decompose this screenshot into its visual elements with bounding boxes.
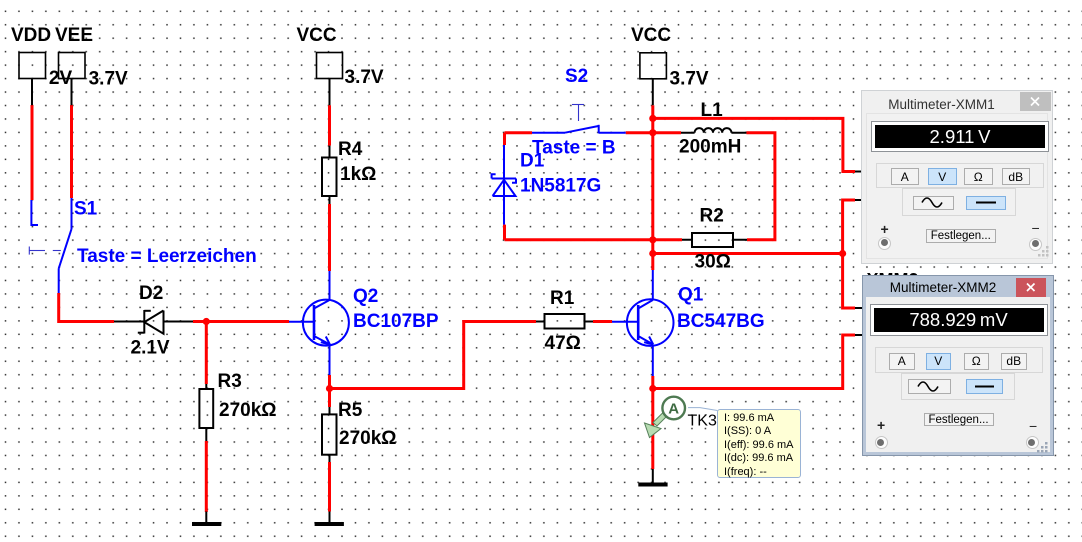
tooltip TK3 readings: [717, 409, 801, 478]
svg-text:R5: R5: [338, 400, 363, 421]
svg-text:Taste = B: Taste = B: [532, 138, 616, 159]
wire R4 leads: [329, 146, 331, 204]
svg-text:A: A: [668, 401, 679, 418]
wire VCC1 down: [328, 105, 331, 145]
svg-text:Q1: Q1: [678, 285, 704, 306]
wire S2 left red: [505, 131, 533, 134]
wire S2 right red: [626, 131, 653, 134]
svg-text:R1: R1: [550, 288, 575, 309]
resistor R1 47: [545, 314, 585, 329]
junction node Q1 emitter: [649, 385, 656, 392]
svg-text:S1: S1: [74, 199, 98, 220]
switch S2 key indicator: [572, 105, 584, 122]
svg-text:2.1V: 2.1V: [131, 338, 170, 359]
ground under R3: [192, 522, 221, 526]
svg-text:R4: R4: [338, 139, 363, 160]
wire R4 to Q2 collector: [328, 204, 331, 271]
svg-text:BC107BP: BC107BP: [353, 311, 439, 332]
wire VCC1 stub: [329, 79, 331, 106]
svg-text:30Ω: 30Ω: [695, 252, 731, 273]
svg-text:D1: D1: [520, 151, 545, 172]
multimeter XMM1 panel: [861, 90, 1053, 264]
svg-text:BC547BG: BC547BG: [677, 311, 765, 332]
svg-text:Q2: Q2: [353, 286, 378, 307]
svg-text:VCC: VCC: [631, 25, 671, 46]
svg-text:VCC: VCC: [297, 25, 337, 46]
resistor R4 1k: [322, 158, 337, 197]
svg-text:Taste = Leerzeichen: Taste = Leerzeichen: [77, 246, 257, 267]
svg-text:3.7V: 3.7V: [670, 69, 709, 90]
voltage source VCC2 3.7V: [640, 53, 667, 79]
wire Q2 emitter to R1: [330, 322, 537, 389]
svg-text:D2: D2: [139, 283, 163, 304]
wire L1 leads: [681, 132, 746, 134]
wire node A down to R3: [205, 322, 208, 385]
voltage source VDD 2V: [19, 53, 46, 79]
wire node B to R5: [328, 389, 331, 408]
junction node D2-R3: [203, 318, 210, 325]
voltage source VCC1 3.7V: [317, 53, 343, 79]
wire VCC node to XMM1 plus: [653, 118, 855, 171]
junction node Q2 emitter: [326, 385, 333, 392]
svg-text:S2: S2: [565, 66, 588, 87]
svg-text:3.7V: 3.7V: [89, 69, 128, 90]
wire XMM2 minus stub: [855, 334, 863, 336]
diode D1 1N5817G schottky: [492, 145, 516, 225]
resistor R3 270k: [199, 389, 213, 428]
wire XMM2 plus stub: [855, 307, 863, 309]
junction node VCC-XMM1: [649, 115, 656, 122]
wire XMM2 minus to Q1 emitter node: [653, 335, 855, 389]
wire Q1 collector node to XMM1 minus: [653, 252, 843, 255]
wire R5 to ground: [328, 462, 331, 512]
wire VDD source down: [31, 105, 34, 200]
wire Q2 emitter down: [328, 375, 331, 389]
resistor R5 270k: [322, 414, 337, 454]
wire VEE stub: [71, 79, 73, 106]
wire D2 left lead: [114, 321, 144, 323]
wire D2 right lead: [164, 321, 194, 323]
ground under R5: [315, 522, 344, 526]
switch S1: [31, 198, 71, 293]
wire VCC2 stub: [652, 79, 654, 106]
wire XMM1 plus stub: [855, 171, 862, 173]
transistor Q2 BC107BP: [289, 271, 349, 375]
current probe TK3: [645, 397, 718, 438]
wire XMM1 minus stub: [855, 199, 862, 201]
resistor R2 30: [692, 233, 733, 247]
svg-text:TK3: TK3: [688, 413, 717, 430]
transistor Q1 BC547BG: [612, 270, 674, 376]
svg-text:VDD: VDD: [11, 25, 51, 46]
wire R2 right loop to L1: [746, 133, 775, 240]
wire XMM1 minus to XMM2 plus: [843, 200, 855, 308]
wire R2 leads: [682, 239, 747, 241]
wire D1 top: [503, 133, 506, 145]
wire R1 leads: [536, 321, 593, 323]
svg-text:R3: R3: [218, 371, 242, 392]
svg-text:L1: L1: [701, 100, 724, 121]
svg-text:47Ω: 47Ω: [545, 333, 581, 354]
junction node VCC-L1: [649, 129, 656, 136]
wire D2 to Q2 base: [193, 320, 289, 323]
wire D1 loop bottom to R2: [505, 238, 683, 241]
svg-text:R2: R2: [700, 206, 724, 227]
wire Q1 emitter down: [651, 376, 654, 469]
wire VEE source down: [70, 105, 73, 198]
wire R1 to Q1 base: [593, 320, 612, 323]
inductor L1 200mH: [695, 128, 732, 133]
switch S2: [532, 125, 626, 134]
wire R3 leads: [205, 384, 207, 523]
svg-text:270kΩ: 270kΩ: [339, 428, 397, 449]
wire VCC2 down to Q1 collector: [651, 105, 654, 270]
wire S1 bottom to D2 row: [59, 293, 114, 322]
diode D2 2.1V: [138, 310, 164, 334]
svg-text:270kΩ: 270kΩ: [219, 400, 277, 421]
svg-text:1N5817G: 1N5817G: [520, 176, 601, 197]
junction node R2 left: [649, 236, 656, 243]
wire R3 to ground: [205, 441, 208, 512]
voltage source VEE 3.7V: [59, 53, 86, 79]
junction node Q1 collector tap: [649, 250, 656, 257]
wire L1 left: [653, 131, 681, 134]
svg-text:VEE: VEE: [55, 25, 93, 46]
svg-text:200mH: 200mH: [679, 137, 741, 158]
svg-text:1kΩ: 1kΩ: [340, 164, 376, 185]
ground under Q1 emitter: [638, 483, 667, 487]
wire D1 bottom: [503, 225, 506, 240]
junction node XMM tap: [839, 250, 846, 257]
svg-text:2V: 2V: [49, 68, 73, 89]
switch S1 key indicator: [29, 247, 61, 255]
wire VDD stub: [31, 79, 33, 106]
wire TK3 ground stub: [652, 469, 654, 483]
wire R5 leads: [329, 407, 331, 523]
multimeter XMM2 panel: [862, 275, 1054, 457]
svg-text:3.7V: 3.7V: [345, 67, 384, 88]
